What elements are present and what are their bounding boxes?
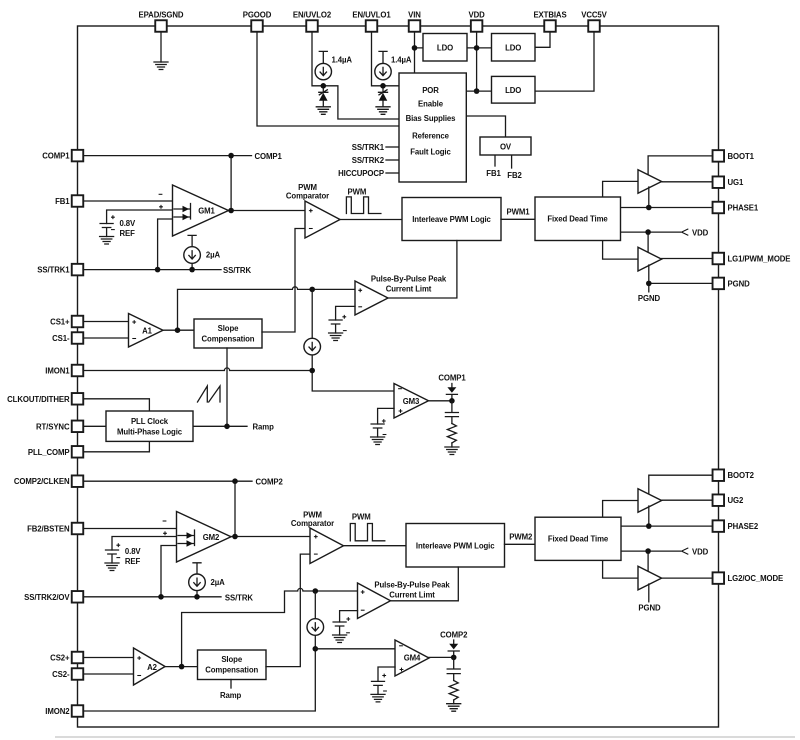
svg-text:1.4µA: 1.4µA [332, 56, 353, 65]
zener diode D2 [379, 86, 388, 95]
svg-text:OV: OV [500, 143, 512, 152]
svg-text:CS2+: CS2+ [50, 654, 70, 663]
svg-text:Multi-Phase Logic: Multi-Phase Logic [117, 428, 183, 437]
wire UG1 [662, 181, 713, 183]
svg-text:COMP2/CLKEN: COMP2/CLKEN [14, 477, 70, 486]
node COMP1 [84, 156, 252, 211]
wire RT/SYNC to PLL [84, 425, 107, 427]
wire BOOT1 [648, 156, 712, 176]
wire FB2/BSTEN to GM2 [84, 528, 177, 530]
svg-text:PLL Clock: PLL Clock [131, 417, 169, 426]
svg-text:POR: POR [422, 86, 439, 95]
battery 0.8V REF 2 ground [105, 563, 119, 571]
svg-text:0.8V: 0.8V [125, 547, 142, 556]
svg-text:Pulse-By-Pulse Peak: Pulse-By-Pulse Peak [371, 275, 447, 284]
battery current limit ref 2 [333, 622, 346, 635]
pin IMON1 [72, 365, 84, 377]
wire GM4 plus input battery [378, 667, 395, 681]
comparator pulse-by-pulse 2 [358, 583, 391, 619]
node EN/UVLO1 clamp [380, 83, 386, 89]
pin CS1+ [72, 316, 84, 328]
junction PGND 1 [646, 281, 652, 287]
wire IMON1 current source 1 [311, 289, 313, 370]
wire GM4 output [429, 656, 454, 658]
svg-text:SS/TRK: SS/TRK [223, 266, 251, 275]
LDO U1 [423, 34, 467, 62]
wire PWM comparator 2 output [344, 545, 407, 547]
ground GM4 RC [447, 704, 461, 712]
wire A1 output to Slope Compensation 1 [163, 329, 194, 331]
current source I1 1.4µA [315, 63, 331, 79]
PWM waveform glyph 1 [346, 197, 380, 214]
svg-text:CS1-: CS1- [52, 334, 70, 343]
svg-text:SS/TRK2/OV: SS/TRK2/OV [24, 593, 70, 602]
pin EPAD/SGND [155, 20, 167, 32]
wire IMON2 [84, 649, 316, 711]
wire A1 output up to current limit comparator [178, 287, 356, 330]
arrow VDD 2 [682, 548, 689, 555]
wire Interleave 1 to current limit output [388, 241, 457, 299]
svg-text:FB2/BSTEN: FB2/BSTEN [27, 525, 70, 534]
wire LDO3 to VCC5V [535, 32, 594, 91]
junction SS/TRK1 clamp [155, 267, 161, 273]
battery GM4 ref ground [371, 694, 385, 702]
svg-text:IMON1: IMON1 [45, 367, 70, 376]
svg-text:REF: REF [120, 229, 136, 238]
wire ramp from Slope Compensation 1 to PLL [226, 348, 228, 426]
amplifier A1 [129, 314, 164, 348]
svg-text:Fixed Dead Time: Fixed Dead Time [547, 215, 608, 224]
wire CS1+ to A1 [84, 321, 129, 323]
battery current limit ref 1 ground [329, 333, 343, 341]
svg-text:CS2-: CS2- [52, 670, 70, 679]
current source I1 1.4uA T-bar [319, 51, 327, 63]
junction COMP1 [228, 153, 234, 159]
svg-text:2µA: 2µA [206, 251, 221, 260]
PWM waveform glyph 2 [350, 524, 384, 541]
junction GM1 output [228, 208, 234, 214]
arrow VDD 1 [682, 229, 689, 236]
pin UG2 [713, 494, 725, 506]
pin LG2/OC_MODE [713, 572, 725, 584]
pin EXTBIAS [544, 20, 556, 32]
svg-text:2µA: 2µA [211, 578, 226, 587]
svg-text:COMP1: COMP1 [255, 152, 283, 161]
wire current limit 2 minus input [340, 611, 358, 622]
comparator pulse-by-pulse 1 [355, 281, 388, 315]
wire current limit 1 minus input [336, 306, 355, 320]
junction A1 output [175, 327, 181, 333]
op-amp GM4 [395, 640, 429, 676]
wire Fixed Dead Time 2 to lower driver [603, 560, 638, 578]
resistor R1 [447, 424, 456, 444]
svg-text:EXTBIAS: EXTBIAS [533, 11, 566, 20]
battery GM3 ref ground [371, 437, 385, 445]
pin PLL_COMP [72, 446, 84, 458]
junction PHASE1 [646, 205, 652, 211]
driver LG1 [638, 247, 662, 271]
stub SS/TRK2 [386, 159, 399, 161]
svg-text:Compensation: Compensation [202, 334, 255, 343]
svg-text:GM3: GM3 [403, 397, 420, 406]
svg-text:VDD: VDD [692, 547, 709, 556]
capacitor C2 [447, 657, 460, 680]
svg-text:PGOOD: PGOOD [243, 11, 272, 20]
svg-text:LDO: LDO [437, 44, 453, 53]
wire IMON2 current source 2 [314, 591, 316, 649]
pin VCC5V [588, 20, 600, 32]
svg-text:PGND: PGND [728, 279, 751, 288]
svg-text:PGND: PGND [638, 604, 661, 613]
svg-text:Interleave PWM Logic: Interleave PWM Logic [416, 542, 495, 551]
LDO U3 [492, 76, 536, 103]
box Fixed Dead Time 1 [535, 197, 621, 241]
wire BOOT2 [649, 475, 713, 495]
wire IMON1 [84, 368, 395, 391]
pin SS/TRK1 [72, 264, 84, 276]
pin CS1- [72, 332, 84, 344]
pin COMP2/CLKEN [72, 475, 84, 487]
junction SS/TRK1 source [189, 267, 195, 273]
junction SS/TRK2 clamp [158, 594, 164, 600]
svg-text:Enable: Enable [418, 100, 444, 109]
wire GM2 output to PWM comparator 2 [231, 536, 310, 538]
battery 0.8V REF 1 [100, 224, 113, 237]
wire LDO2 to EXTBIAS [535, 32, 550, 47]
OV comparator block [480, 137, 531, 155]
svg-text:Ramp: Ramp [253, 423, 275, 432]
wire EPAD/SGND to ground [160, 32, 162, 62]
wire VDD down [476, 32, 478, 91]
svg-text:COMP2: COMP2 [440, 630, 468, 639]
POR / Fault Logic block [399, 73, 466, 182]
pin BOOT1 [713, 150, 725, 162]
pin FB2/BSTEN [72, 523, 84, 535]
svg-text:1.4µA: 1.4µA [391, 56, 412, 65]
svg-text:Interleave PWM Logic: Interleave PWM Logic [412, 215, 491, 224]
wire PGOOD to POR [257, 32, 399, 126]
wire UG2 [662, 499, 713, 501]
box Fixed Dead Time 2 [535, 517, 621, 560]
svg-text:HICCUPOCP: HICCUPOCP [338, 169, 384, 178]
junction VIN [412, 45, 418, 51]
wire LG1 [662, 258, 713, 260]
wire FB1 to GM1 [84, 200, 173, 202]
svg-text:CS1+: CS1+ [50, 318, 70, 327]
driver LG2 [638, 566, 662, 590]
junction current limit input 2 [313, 588, 319, 594]
ground EPAD/SGND [154, 62, 168, 70]
amplifier A2 [134, 648, 166, 685]
wire VDD tap 2 [620, 551, 680, 572]
svg-text:Slope: Slope [218, 324, 239, 333]
svg-text:SS/TRK1: SS/TRK1 [37, 266, 70, 275]
battery GM4 ref [372, 681, 385, 694]
wire PHASE1 [620, 187, 712, 208]
wire GM1 REF input [107, 210, 173, 224]
svg-text:SS/TRK2: SS/TRK2 [352, 156, 385, 165]
svg-text:COMP1: COMP1 [438, 374, 466, 383]
junction PHASE2 [646, 523, 652, 529]
wire PLL output Ramp [193, 425, 247, 427]
ground GM3 RC [445, 447, 459, 455]
svg-text:FB1: FB1 [55, 197, 70, 206]
wire EN/UVLO1 down [372, 32, 384, 86]
wire CS2- to A2 [84, 673, 134, 675]
current source I3 2uA T-bar [188, 235, 196, 269]
pin RT/SYNC [72, 421, 84, 433]
zener ground [376, 107, 390, 115]
wire Slope Compensation 2 output to comparator minus [266, 554, 310, 667]
op-amp GM2 [177, 512, 232, 563]
svg-text:Fault Logic: Fault Logic [410, 148, 451, 157]
junction VDD upper [474, 45, 480, 51]
battery 0.8V REF 1 ground [100, 237, 114, 245]
svg-text:A2: A2 [147, 663, 158, 672]
svg-text:Current Limt: Current Limt [386, 285, 432, 294]
node COMP2 [84, 481, 253, 536]
pin EN/UVLO2 [306, 20, 318, 32]
pin PHASE2 [713, 520, 725, 532]
svg-text:PGND: PGND [638, 294, 661, 303]
box PLL Clock Multi-Phase Logic [106, 411, 193, 441]
svg-text:RT/SYNC: RT/SYNC [36, 422, 70, 431]
svg-text:Comparator: Comparator [286, 192, 329, 201]
pin COMP1 [72, 150, 84, 162]
pin VIN [409, 20, 421, 32]
current source I5 2uA T-bar [193, 563, 201, 597]
wire SS/TRK2 [84, 596, 222, 598]
box Interleave PWM Logic 1 [402, 198, 501, 241]
comparator PWM 1 [305, 201, 340, 238]
driver UG1 [638, 170, 662, 194]
battery current limit ref 2 ground [333, 635, 347, 643]
svg-text:SS/TRK1: SS/TRK1 [352, 143, 385, 152]
svg-text:BOOT1: BOOT1 [728, 152, 755, 161]
current source I4 IMON1 [304, 338, 321, 355]
wire SS/TRK1 [84, 269, 222, 271]
svg-text:VIN: VIN [408, 11, 421, 20]
wire PWM1 [501, 218, 535, 220]
wire GM2 clamp input from SS/TRK2 [161, 546, 177, 597]
wire PWM comparator 1 output [340, 219, 402, 221]
svg-text:LG2/OC_MODE: LG2/OC_MODE [728, 574, 784, 583]
junction COMP2 [232, 478, 238, 484]
svg-text:PHASE2: PHASE2 [728, 522, 759, 531]
pin CLKOUT/DITHER [72, 393, 84, 405]
svg-text:GM1: GM1 [198, 206, 215, 215]
svg-text:Slope: Slope [221, 655, 242, 664]
wire CS1- to A1 [84, 337, 129, 339]
pin EN/UVLO1 [366, 20, 378, 32]
junction IMON1 [309, 368, 315, 374]
junction VDD tap 2 [645, 548, 651, 554]
pin SS/TRK2/OV [72, 591, 84, 603]
junction current limit input 1 [309, 287, 315, 293]
wire EN/UVLO2 node to POR [323, 86, 399, 119]
stub PGND 2 [648, 584, 650, 602]
svg-text:FB1: FB1 [486, 169, 501, 178]
svg-text:A1: A1 [142, 327, 153, 336]
svg-text:Pulse-By-Pulse Peak: Pulse-By-Pulse Peak [374, 581, 450, 590]
GM2 internal clamp diodes [178, 530, 195, 546]
current source I2 1.4µA [375, 63, 391, 79]
wire Interleave 2 to current limit output 2 [391, 567, 459, 601]
junction COMP2 RC [451, 655, 457, 661]
junction VDD lower [474, 88, 480, 94]
wire IMON2 to GM4 [315, 648, 395, 650]
wire LDO1 to LDO2 through VDD [467, 47, 492, 49]
zener diode D1 [319, 86, 328, 95]
svg-text:UG2: UG2 [728, 496, 744, 505]
op-amp GM1 [173, 185, 229, 236]
junction SS/TRK2 source [194, 594, 200, 600]
wire POR to LDO3 [466, 90, 491, 92]
GM1 internal clamp diodes [174, 204, 191, 220]
pin VDD [471, 20, 483, 32]
pin IMON2 [72, 705, 84, 717]
chip outline border [78, 26, 719, 727]
wire VIN to LDO and POR [415, 32, 424, 73]
pin PHASE1 [713, 202, 725, 214]
svg-text:Compensation: Compensation [205, 666, 258, 675]
svg-text:EN/UVLO2: EN/UVLO2 [293, 11, 332, 20]
svg-text:IMON2: IMON2 [45, 707, 70, 716]
stub FB1 under OV [494, 155, 496, 166]
svg-text:VDD: VDD [469, 11, 486, 20]
junction VDD tap 1 [645, 229, 651, 235]
box Slope Compensation 2 [198, 650, 267, 680]
junction Ramp [224, 424, 230, 430]
battery current limit ref 1 [329, 320, 342, 333]
stub SS/TRK1 [386, 146, 399, 148]
junction A2 output [179, 664, 185, 670]
wire Fixed Dead Time 2 to upper driver [603, 501, 638, 518]
svg-text:Reference: Reference [412, 132, 450, 141]
sawtooth ramp waveform 1 [198, 386, 221, 402]
pin UG1 [713, 176, 725, 188]
resistor R2 [449, 681, 458, 701]
current source I5 2µA [189, 574, 206, 591]
svg-text:0.8V: 0.8V [120, 219, 137, 228]
pin CS2+ [72, 652, 84, 664]
wire VDD tap 1 [620, 232, 680, 253]
svg-text:PWM: PWM [352, 513, 371, 522]
comparator PWM 2 [310, 528, 344, 564]
svg-text:Current Limt: Current Limt [389, 591, 435, 600]
svg-text:COMP1: COMP1 [42, 152, 70, 161]
junction COMP1 RC [449, 398, 455, 404]
wire Fixed Dead Time 1 to upper driver [603, 181, 638, 197]
svg-text:COMP2: COMP2 [256, 477, 284, 486]
stub HICCUPOCP [386, 172, 399, 174]
pin LG1/PWM_MODE [713, 253, 725, 265]
svg-text:UG1: UG1 [728, 178, 744, 187]
wire PWM2 [505, 543, 536, 545]
box Interleave PWM Logic 2 [406, 524, 505, 568]
current source I3 2µA [184, 247, 201, 264]
pin PGND [713, 278, 725, 290]
capacitor C1 [445, 401, 458, 424]
wire GM2 REF input [112, 537, 177, 551]
svg-text:CLKOUT/DITHER: CLKOUT/DITHER [7, 395, 70, 404]
battery GM3 ref [371, 424, 384, 437]
wire PHASE2 [620, 506, 712, 526]
wire GM1 output to PWM comparator 1 [229, 210, 306, 212]
stub FB2 under OV [511, 155, 513, 168]
svg-text:GM4: GM4 [404, 654, 421, 663]
op-amp GM3 [394, 384, 429, 419]
svg-text:Ramp: Ramp [220, 691, 242, 700]
svg-text:PHASE1: PHASE1 [728, 204, 759, 213]
svg-text:PWM2: PWM2 [509, 532, 533, 541]
battery 0.8V REF 2 [106, 550, 119, 563]
pin FB1 [72, 195, 84, 207]
wire GM3 plus input battery [378, 408, 394, 424]
page footer rule [55, 736, 795, 738]
svg-text:Comparator: Comparator [291, 519, 334, 528]
svg-text:VCC5V: VCC5V [581, 11, 607, 20]
svg-text:Fixed Dead Time: Fixed Dead Time [548, 535, 609, 544]
svg-text:FB2: FB2 [507, 171, 522, 180]
current source I6 IMON2 [307, 619, 324, 636]
svg-text:PWM: PWM [348, 187, 367, 196]
wire EN/UVLO1 node to POR [383, 85, 399, 87]
svg-text:LG1/PWM_MODE: LG1/PWM_MODE [728, 255, 791, 264]
svg-text:LDO: LDO [505, 86, 521, 95]
wire GM1 clamp input from SS/TRK1 [158, 219, 173, 270]
zener ground [316, 107, 330, 115]
svg-text:EN/UVLO1: EN/UVLO1 [352, 11, 391, 20]
svg-text:PWM1: PWM1 [507, 207, 531, 216]
svg-text:PLL_COMP: PLL_COMP [28, 448, 70, 457]
current source I2 1.4uA T-bar [379, 51, 387, 63]
box Slope Compensation 1 [194, 319, 262, 348]
pin BOOT2 [713, 469, 725, 481]
wire LG2 [662, 577, 713, 579]
svg-text:Bias Supplies: Bias Supplies [406, 114, 457, 123]
wire Fixed Dead Time 1 to lower driver [603, 241, 638, 260]
wire GM3 output [429, 400, 452, 402]
wire POR to OV [466, 116, 505, 137]
LDO U2 [492, 34, 536, 62]
wire EN/UVLO2 down [312, 32, 323, 86]
wire PLL_COMP to PLL [84, 441, 150, 451]
svg-text:REF: REF [125, 557, 141, 566]
wire CLKOUT/DITHER to PLL [84, 399, 150, 411]
driver UG2 [638, 489, 662, 513]
wire A2 output to Slope Compensation 2 [165, 666, 197, 668]
svg-text:EPAD/SGND: EPAD/SGND [139, 11, 184, 20]
pin CS2- [72, 668, 84, 680]
junction IMON2 [313, 646, 319, 652]
svg-text:SS/TRK: SS/TRK [225, 594, 253, 603]
svg-text:VDD: VDD [692, 228, 709, 237]
svg-text:LDO: LDO [505, 44, 521, 53]
svg-text:GM2: GM2 [203, 533, 220, 542]
wire PGND 1 [649, 265, 713, 292]
junction GM2 output [232, 534, 238, 540]
wire A2 output up to current limit comparator 2 [182, 588, 358, 666]
pin PGOOD [251, 20, 263, 32]
wire CS2+ to A2 [84, 657, 134, 659]
wire Slope Compensation 1 output to comparator minus [262, 229, 305, 333]
stub Ramp 2 [230, 680, 232, 689]
svg-text:BOOT2: BOOT2 [728, 471, 755, 480]
node EN/UVLO2 clamp [321, 83, 327, 89]
